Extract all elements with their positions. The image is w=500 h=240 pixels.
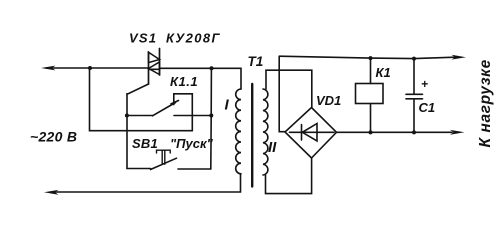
svg-text:SB1: SB1: [132, 136, 158, 151]
svg-text:К нагрузке: К нагрузке: [477, 59, 494, 147]
svg-text:VS1: VS1: [129, 31, 157, 46]
svg-text:~220 В: ~220 В: [30, 129, 77, 145]
svg-text:II: II: [268, 139, 277, 156]
svg-text:С1: С1: [419, 100, 436, 115]
svg-text:К1.1: К1.1: [170, 74, 198, 89]
svg-text:К1: К1: [376, 65, 391, 80]
svg-text:КУ208Г: КУ208Г: [166, 31, 221, 46]
svg-text:+: +: [421, 77, 428, 91]
svg-text:VD1: VD1: [316, 93, 341, 108]
svg-text:"Пуск": "Пуск": [170, 136, 214, 151]
svg-text:Т1: Т1: [248, 54, 264, 69]
svg-text:I: I: [225, 97, 230, 114]
